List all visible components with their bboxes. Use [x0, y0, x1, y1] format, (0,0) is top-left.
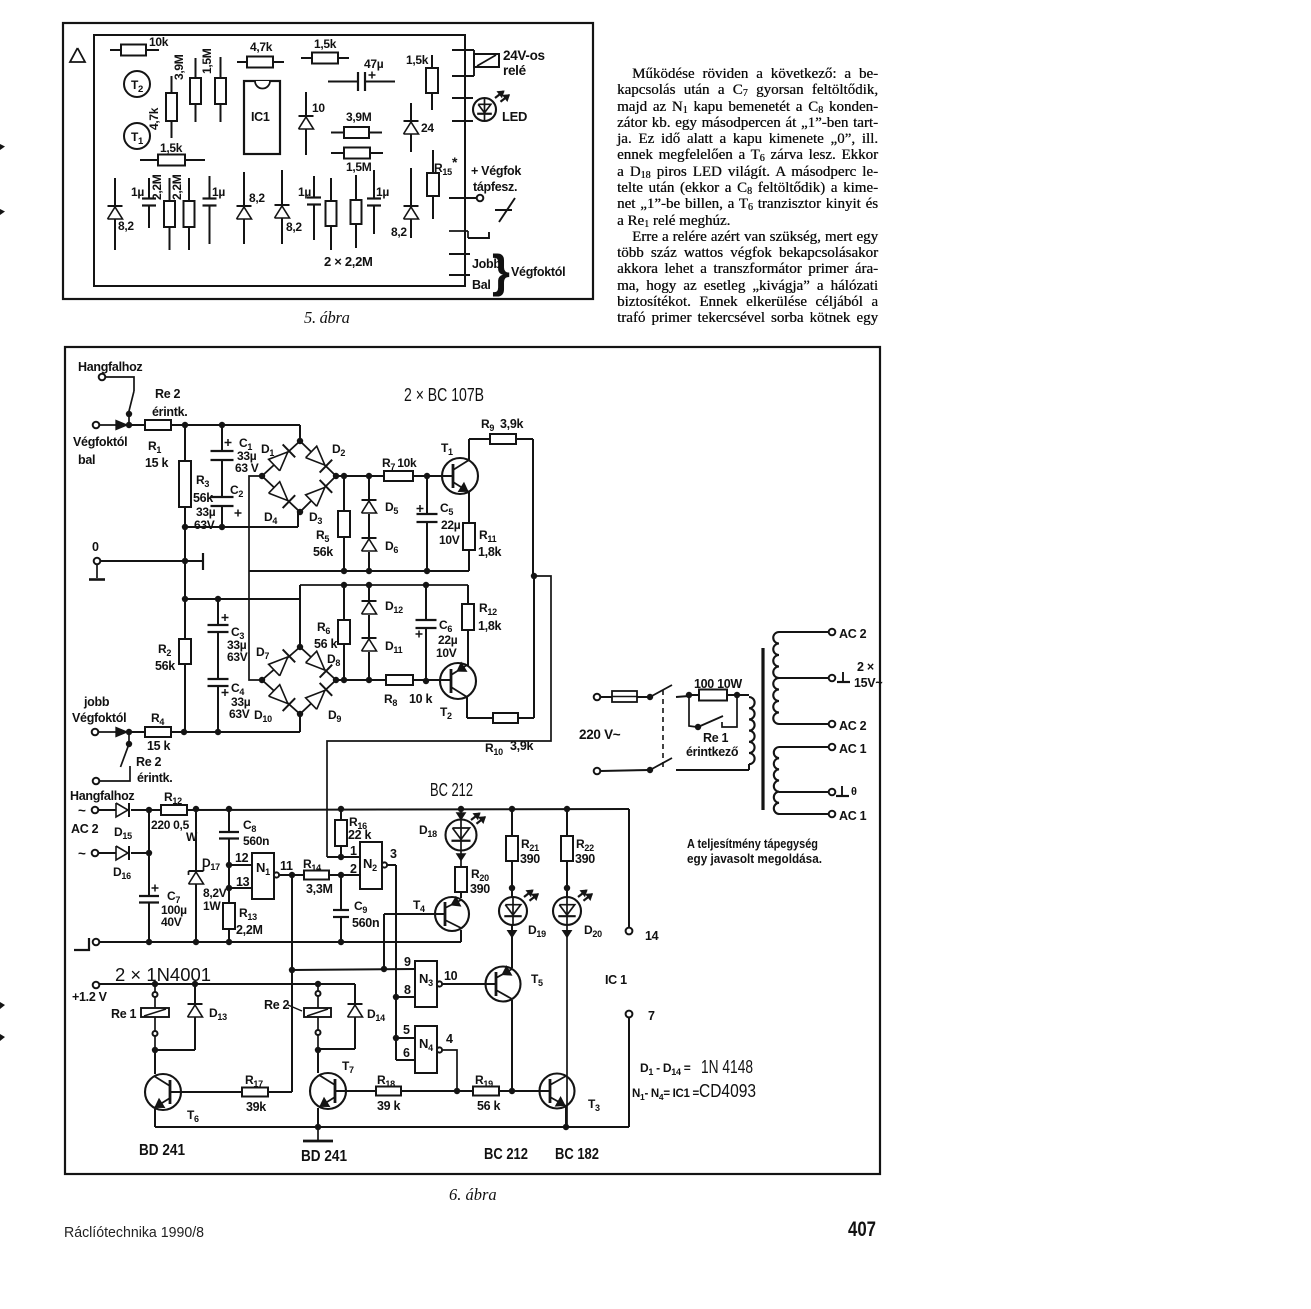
transistor T3	[540, 1074, 575, 1109]
svg-text:egy javasolt megoldása.: egy javasolt megoldása.	[687, 851, 822, 866]
node D19 top	[509, 885, 515, 891]
resistor R3	[179, 461, 191, 507]
node T4 base tie	[381, 966, 387, 972]
transistor T6	[145, 1074, 181, 1110]
node D12 top	[366, 582, 372, 588]
svg-text:Re 2: Re 2	[264, 998, 290, 1012]
node N1 out	[289, 872, 295, 878]
wire bridge1 right to R7	[336, 475, 384, 477]
svg-text:15 k: 15 k	[147, 739, 170, 753]
terminal mains L	[594, 694, 601, 701]
wire D14 to Re2	[318, 1048, 355, 1050]
svg-text:3,9M: 3,9M	[346, 110, 372, 124]
svg-text:+1.2 V: +1.2 V	[72, 990, 108, 1004]
svg-text:R5: R5	[316, 528, 329, 544]
node C3 top	[215, 596, 221, 602]
resistor R6	[338, 620, 350, 644]
wire R22 to D20	[566, 861, 568, 897]
gate N1	[252, 853, 274, 899]
diode D14	[348, 1003, 363, 1005]
minus terminal mark	[74, 938, 89, 950]
svg-text:8,2: 8,2	[391, 225, 407, 239]
diode 8,2 d lead	[410, 168, 412, 238]
svg-text:1,8k: 1,8k	[478, 619, 501, 633]
resistor 4,7k horizontal	[247, 57, 273, 68]
diode D14 top lead	[354, 984, 356, 1004]
node mains switch a	[647, 694, 653, 700]
pin 7 terminal	[626, 1011, 633, 1018]
diode 10 lead	[305, 92, 307, 155]
svg-text:560n: 560n	[243, 834, 269, 848]
wire T5 top to D19	[511, 925, 513, 968]
wire R3 to R2	[184, 507, 186, 639]
resistor R13	[223, 903, 235, 929]
svg-text:C5: C5	[440, 501, 453, 517]
svg-text:D7: D7	[256, 645, 269, 661]
wire to R1	[129, 424, 145, 426]
svg-text:BD 241: BD 241	[139, 1142, 185, 1159]
wire bridge2 bottom stub	[299, 714, 301, 732]
ground mark center tap 2	[841, 786, 843, 795]
transistor T1	[442, 458, 478, 494]
svg-text:1W: 1W	[203, 899, 221, 913]
svg-text:10: 10	[312, 101, 325, 115]
wire T6 emitter to rail	[154, 1109, 156, 1127]
node bridge1 left	[259, 473, 265, 479]
node R100 right	[734, 692, 740, 698]
svg-text:407: 407	[848, 1218, 876, 1241]
svg-text:22µ: 22µ	[438, 633, 458, 647]
svg-text:2 × 2,2M: 2 × 2,2M	[324, 254, 373, 269]
svg-text:0: 0	[92, 540, 99, 554]
terminal +1.2V	[93, 982, 100, 989]
node C7 bottom	[146, 939, 152, 945]
node bridge2 top	[297, 644, 303, 650]
svg-text:C6: C6	[439, 618, 452, 634]
resistor 3,9M vertical	[190, 78, 201, 104]
node N1 pin13	[226, 885, 232, 891]
diode 8,2 a lead	[114, 178, 116, 250]
diode 8,2 b	[237, 205, 252, 207]
terminal 0	[94, 558, 101, 565]
diode 24	[404, 120, 419, 122]
wire N4 out down	[442, 1050, 457, 1092]
node C9 top	[338, 872, 344, 878]
resistor 1,5k vertical	[426, 68, 438, 93]
wire y599	[185, 598, 300, 600]
node T5 emitter	[509, 1088, 515, 1094]
switch contact hook	[100, 766, 130, 781]
node Jobb stub	[449, 253, 470, 255]
svg-text:15 k: 15 k	[145, 456, 168, 470]
node C8 top	[226, 806, 232, 812]
node bridge2 bottom	[297, 711, 303, 717]
node D16 C7	[146, 850, 152, 856]
svg-text:D11: D11	[385, 639, 403, 655]
svg-text:relé: relé	[503, 63, 527, 78]
svg-text:390: 390	[575, 852, 595, 866]
gate N2 output bubble	[382, 862, 387, 867]
diode D5	[362, 499, 377, 501]
node C7 top	[146, 807, 152, 813]
capacitor C5	[417, 513, 438, 515]
diode D4	[269, 482, 288, 501]
svg-text:D12: D12	[385, 599, 403, 615]
svg-text:1,8k: 1,8k	[478, 545, 501, 559]
resistor R21 top lead	[511, 809, 513, 836]
wire to fuse	[601, 696, 612, 698]
resistor R20	[455, 867, 467, 892]
resistor 10k lead	[110, 49, 121, 51]
svg-text:AC 1: AC 1	[839, 742, 867, 756]
svg-text:63 V: 63 V	[235, 461, 259, 475]
wire N2 output	[387, 864, 396, 866]
wire N2 pin1	[327, 856, 360, 858]
wire R10 to right bus	[518, 717, 534, 719]
node bridge2 left	[259, 677, 265, 683]
wire tap AC1 bottom	[779, 813, 829, 815]
resistor R5	[338, 511, 350, 537]
capacitor 47µ	[328, 81, 357, 83]
node R1 input	[126, 422, 132, 428]
svg-text:1µ: 1µ	[131, 185, 144, 199]
svg-text:θ: θ	[851, 786, 857, 798]
svg-text:56k: 56k	[193, 491, 213, 505]
resistor 1,5M vertical lead	[220, 57, 222, 78]
svg-text:10V: 10V	[439, 533, 460, 547]
node D17 top	[193, 806, 199, 812]
node C4 bottom	[215, 729, 221, 735]
svg-text:}: }	[492, 245, 510, 297]
svg-text:5: 5	[403, 1023, 410, 1037]
svg-text:D2: D2	[332, 442, 345, 458]
node bridge1 right	[333, 473, 339, 479]
transformer primary winding	[749, 697, 755, 764]
wire T3 emitter to rail	[565, 1107, 567, 1127]
capacitor 1µ a	[148, 178, 150, 198]
diode D13	[188, 1003, 203, 1005]
resistor 2,2M c	[326, 201, 337, 226]
pin 14 terminal	[626, 928, 633, 935]
terminal center tap 1	[829, 675, 836, 682]
wire switch b to primary	[676, 769, 749, 771]
wire R18 to R19	[401, 1090, 473, 1092]
wire R4 to bridge2	[171, 731, 300, 733]
wire y585 down to bridge2 top	[299, 585, 301, 647]
wire N4 pin6	[396, 1059, 415, 1061]
terminal AC2 bottom	[829, 721, 836, 728]
wire R3 top lead	[184, 425, 186, 461]
diode 10	[299, 115, 314, 117]
svg-text:1µ: 1µ	[298, 185, 311, 199]
wire to T7 collector	[317, 1050, 319, 1073]
terminal AC2 a	[92, 807, 99, 814]
node R16 top	[338, 806, 344, 812]
diode D9	[306, 690, 325, 709]
junction x185 y527	[182, 524, 188, 530]
svg-text:4,7k: 4,7k	[147, 107, 161, 130]
wire down to bridge D1-D4 top	[299, 425, 301, 441]
terminal Végfoktól jobb	[92, 729, 99, 736]
diode D2	[306, 446, 325, 465]
wire +1.2V rail	[99, 983, 355, 985]
wire T5 emitter down	[511, 1000, 513, 1092]
node Bal stub	[449, 274, 470, 276]
wire R2 bottom lead	[184, 664, 186, 732]
figure 5 board outline	[94, 35, 465, 286]
terminal AC2 b	[92, 850, 99, 857]
node R21 top	[509, 806, 515, 812]
resistor R16 top lead	[340, 809, 342, 820]
node C5 top	[424, 473, 430, 479]
svg-text:10k: 10k	[149, 35, 169, 49]
diode 8,2 a	[108, 205, 123, 207]
svg-text:~: ~	[78, 846, 86, 861]
node R22 top	[564, 806, 570, 812]
resistor 1,5k horizontal	[312, 53, 338, 64]
resistor R5 top lead	[343, 476, 345, 511]
svg-text:1,5M: 1,5M	[200, 48, 214, 74]
wire feedback to N2 pin1	[327, 576, 551, 857]
node C1 top	[219, 422, 225, 428]
wire R9 to right bus	[516, 438, 533, 440]
switch Re2 blade left	[129, 391, 135, 413]
svg-text:10V: 10V	[436, 646, 457, 660]
arrow input jobb	[116, 728, 127, 737]
node R100 left	[686, 692, 692, 698]
svg-text:2,2M: 2,2M	[150, 174, 164, 200]
svg-text:D19: D19	[528, 923, 546, 939]
svg-text:R12: R12	[164, 790, 182, 806]
resistor 3,9M lead	[331, 132, 344, 134]
wire N3 pin9	[292, 969, 415, 970]
svg-text:8,2V: 8,2V	[203, 886, 227, 900]
resistor R8	[386, 675, 413, 685]
node C6 bottom	[423, 678, 429, 684]
svg-text:D3: D3	[309, 510, 322, 526]
wire N3 pin8	[396, 996, 415, 998]
svg-text:C8: C8	[243, 818, 256, 834]
node T7 emitter	[315, 1124, 321, 1130]
fuse	[612, 691, 637, 702]
diode D13 bottom lead	[194, 1017, 196, 1050]
node N4 out	[454, 1088, 460, 1094]
svg-text:Végfoktól: Végfoktól	[73, 435, 127, 449]
node N3 pin8	[393, 994, 399, 1000]
svg-text:2,2M: 2,2M	[236, 923, 263, 937]
junction 0 rail	[182, 558, 188, 564]
svg-text:10 k: 10 k	[409, 692, 432, 706]
gate N3 output bubble	[437, 981, 442, 986]
wire Re1 contact branch	[689, 695, 697, 727]
wire switch to R100	[676, 696, 689, 697]
node Re1 bottom	[152, 1047, 158, 1053]
svg-text:R12: R12	[479, 601, 497, 617]
svg-text:24V-os: 24V-os	[503, 48, 545, 63]
node C2 bottom	[219, 524, 225, 530]
svg-text:R1: R1	[148, 439, 161, 455]
capacitor C9	[333, 909, 349, 911]
LED D19	[499, 897, 527, 925]
node C9 bottom	[338, 939, 344, 945]
svg-text:4,7k: 4,7k	[250, 40, 273, 54]
wire D16 to C7 column	[131, 852, 149, 854]
resistor 4,7k lead	[237, 61, 247, 63]
svg-text:7: 7	[648, 1009, 655, 1023]
transistor T5	[486, 967, 521, 1002]
wire to R4	[129, 731, 145, 733]
resistor 1,5k vertical lead	[431, 55, 433, 68]
svg-text:T5: T5	[531, 972, 543, 988]
arrow input bal	[116, 421, 127, 430]
terminal AC1 top	[829, 744, 836, 751]
transistor T2	[124, 71, 150, 97]
resistor R20 bottom lead	[460, 892, 462, 898]
resistor 3,9M vertical lead	[195, 58, 197, 78]
node R6 bottom	[341, 677, 347, 683]
resistor 2,2M d lead	[355, 175, 357, 200]
wire bridge1 left to bridge2 left	[249, 476, 262, 680]
svg-text:D14: D14	[367, 1007, 385, 1023]
transistor T4	[435, 897, 469, 931]
node Re1 contact	[695, 724, 701, 730]
node right bus	[531, 573, 537, 579]
svg-text:R13: R13	[239, 906, 257, 922]
scan marks page edge	[0, 144, 5, 150]
svg-text:R20: R20	[471, 867, 489, 883]
svg-text:1,5k: 1,5k	[314, 37, 337, 51]
svg-text:A teljesítmény tápegység: A teljesítmény tápegység	[687, 836, 818, 851]
diode 8,2 c	[275, 204, 290, 206]
transistor T1	[124, 123, 150, 149]
wire R1 to bridge	[171, 424, 300, 426]
capacitor C8 top lead	[228, 810, 230, 832]
switch link dashed	[662, 690, 664, 768]
resistor R6 top lead	[343, 585, 345, 620]
wire T7 base to R18	[336, 1090, 376, 1092]
svg-text:3,9M: 3,9M	[172, 54, 186, 80]
gate N3	[415, 961, 437, 1007]
chassis bar	[202, 553, 204, 570]
relay 24V-os	[452, 49, 474, 51]
wire R7 to T1 base	[413, 475, 452, 477]
junction switch jobb	[126, 741, 132, 747]
node R3 top	[182, 422, 188, 428]
capacitor C2	[211, 496, 234, 498]
resistor R22	[561, 836, 573, 861]
svg-text:D17: D17	[202, 856, 220, 872]
svg-text:8,2: 8,2	[118, 219, 134, 233]
svg-text:BC 212: BC 212	[484, 1146, 528, 1163]
transformer core	[761, 648, 764, 810]
svg-text:8,2: 8,2	[249, 191, 265, 205]
diode D6	[362, 537, 377, 539]
svg-text:39 k: 39 k	[377, 1099, 400, 1113]
svg-text:6. ábra: 6. ábra	[449, 1185, 497, 1204]
svg-text:C9: C9	[354, 899, 367, 915]
ground stub	[96, 564, 98, 578]
svg-text:R22: R22	[576, 837, 594, 853]
node bridge2 right	[333, 677, 339, 683]
capacitor C4 bottom lead	[217, 686, 219, 732]
wire T4 emitter down	[460, 930, 462, 942]
node D13 top	[192, 981, 198, 987]
resistor 4,7k vertical	[166, 93, 177, 121]
svg-text:Re 2: Re 2	[136, 755, 162, 769]
node T3 emitter	[563, 1124, 569, 1130]
wire D13 to Re1	[155, 1049, 195, 1051]
wire N1 pin13	[229, 887, 252, 889]
diode D14 bottom lead	[354, 1017, 356, 1049]
resistor R9	[490, 434, 516, 444]
wire Hangfalhoz to switch	[105, 377, 134, 391]
svg-text:D9: D9	[328, 708, 341, 724]
bridge rectifier D7-D10	[262, 647, 336, 714]
svg-text:12: 12	[235, 851, 249, 865]
node R5 bottom	[341, 568, 347, 574]
terminal AC2 top	[829, 629, 836, 636]
node D18 top	[458, 806, 464, 812]
transformer secondary winding 2	[774, 747, 779, 814]
capacitor C4	[208, 678, 229, 680]
svg-text:220 V~: 220 V~	[579, 727, 621, 742]
resistor R5 bottom lead	[343, 537, 345, 571]
svg-text:T3: T3	[588, 1097, 600, 1113]
ground stub T7	[317, 1127, 319, 1140]
svg-text:56 k: 56 k	[314, 637, 337, 651]
svg-text:Végfoktól: Végfoktól	[511, 265, 565, 279]
terminal mains N	[594, 768, 601, 775]
svg-text:LED: LED	[502, 109, 527, 124]
relay contact Re1 fixed	[722, 695, 737, 727]
svg-text:2 × BC 107B: 2 × BC 107B	[404, 384, 484, 405]
transformer secondary winding 1	[773, 632, 779, 724]
node N1 pin12	[226, 862, 232, 868]
svg-text:R8: R8	[384, 692, 397, 708]
resistor R6 bottom lead	[343, 644, 345, 680]
diode 24 lead	[410, 103, 412, 152]
mains switch blade b	[650, 758, 672, 770]
resistor R12 ballast	[161, 805, 187, 815]
wire C8 to R13	[228, 838, 230, 903]
node Re2 top	[315, 981, 321, 987]
wire C3 to C4	[217, 632, 219, 679]
wire R21 to D19	[511, 861, 513, 897]
main rail y809	[187, 809, 629, 810]
svg-text:+ Végfok: + Végfok	[471, 164, 521, 178]
node N4 pin5	[393, 1035, 399, 1041]
wire D15 to R12	[131, 809, 161, 811]
resistor 2,2M b lead	[188, 178, 190, 201]
svg-text:63V: 63V	[229, 707, 250, 721]
wire tap AC2 bottom	[779, 723, 829, 725]
relay coil Re2	[317, 984, 319, 991]
wire to switch jobb	[128, 732, 130, 744]
svg-text:D10: D10	[254, 708, 272, 724]
svg-text:bal: bal	[78, 453, 95, 467]
node R13 bottom	[226, 939, 232, 945]
resistor R12	[462, 604, 474, 630]
svg-text:56 k: 56 k	[477, 1099, 500, 1113]
terminal Végfoktól bal	[93, 422, 100, 429]
figure 6 frame	[65, 347, 880, 1174]
rail y942	[96, 941, 461, 943]
wire primary bottom	[748, 764, 750, 770]
diode D11 bottom lead	[368, 652, 370, 680]
capacitor C8	[219, 831, 239, 833]
wire right bus lower	[533, 576, 535, 718]
LED D18	[460, 809, 462, 820]
